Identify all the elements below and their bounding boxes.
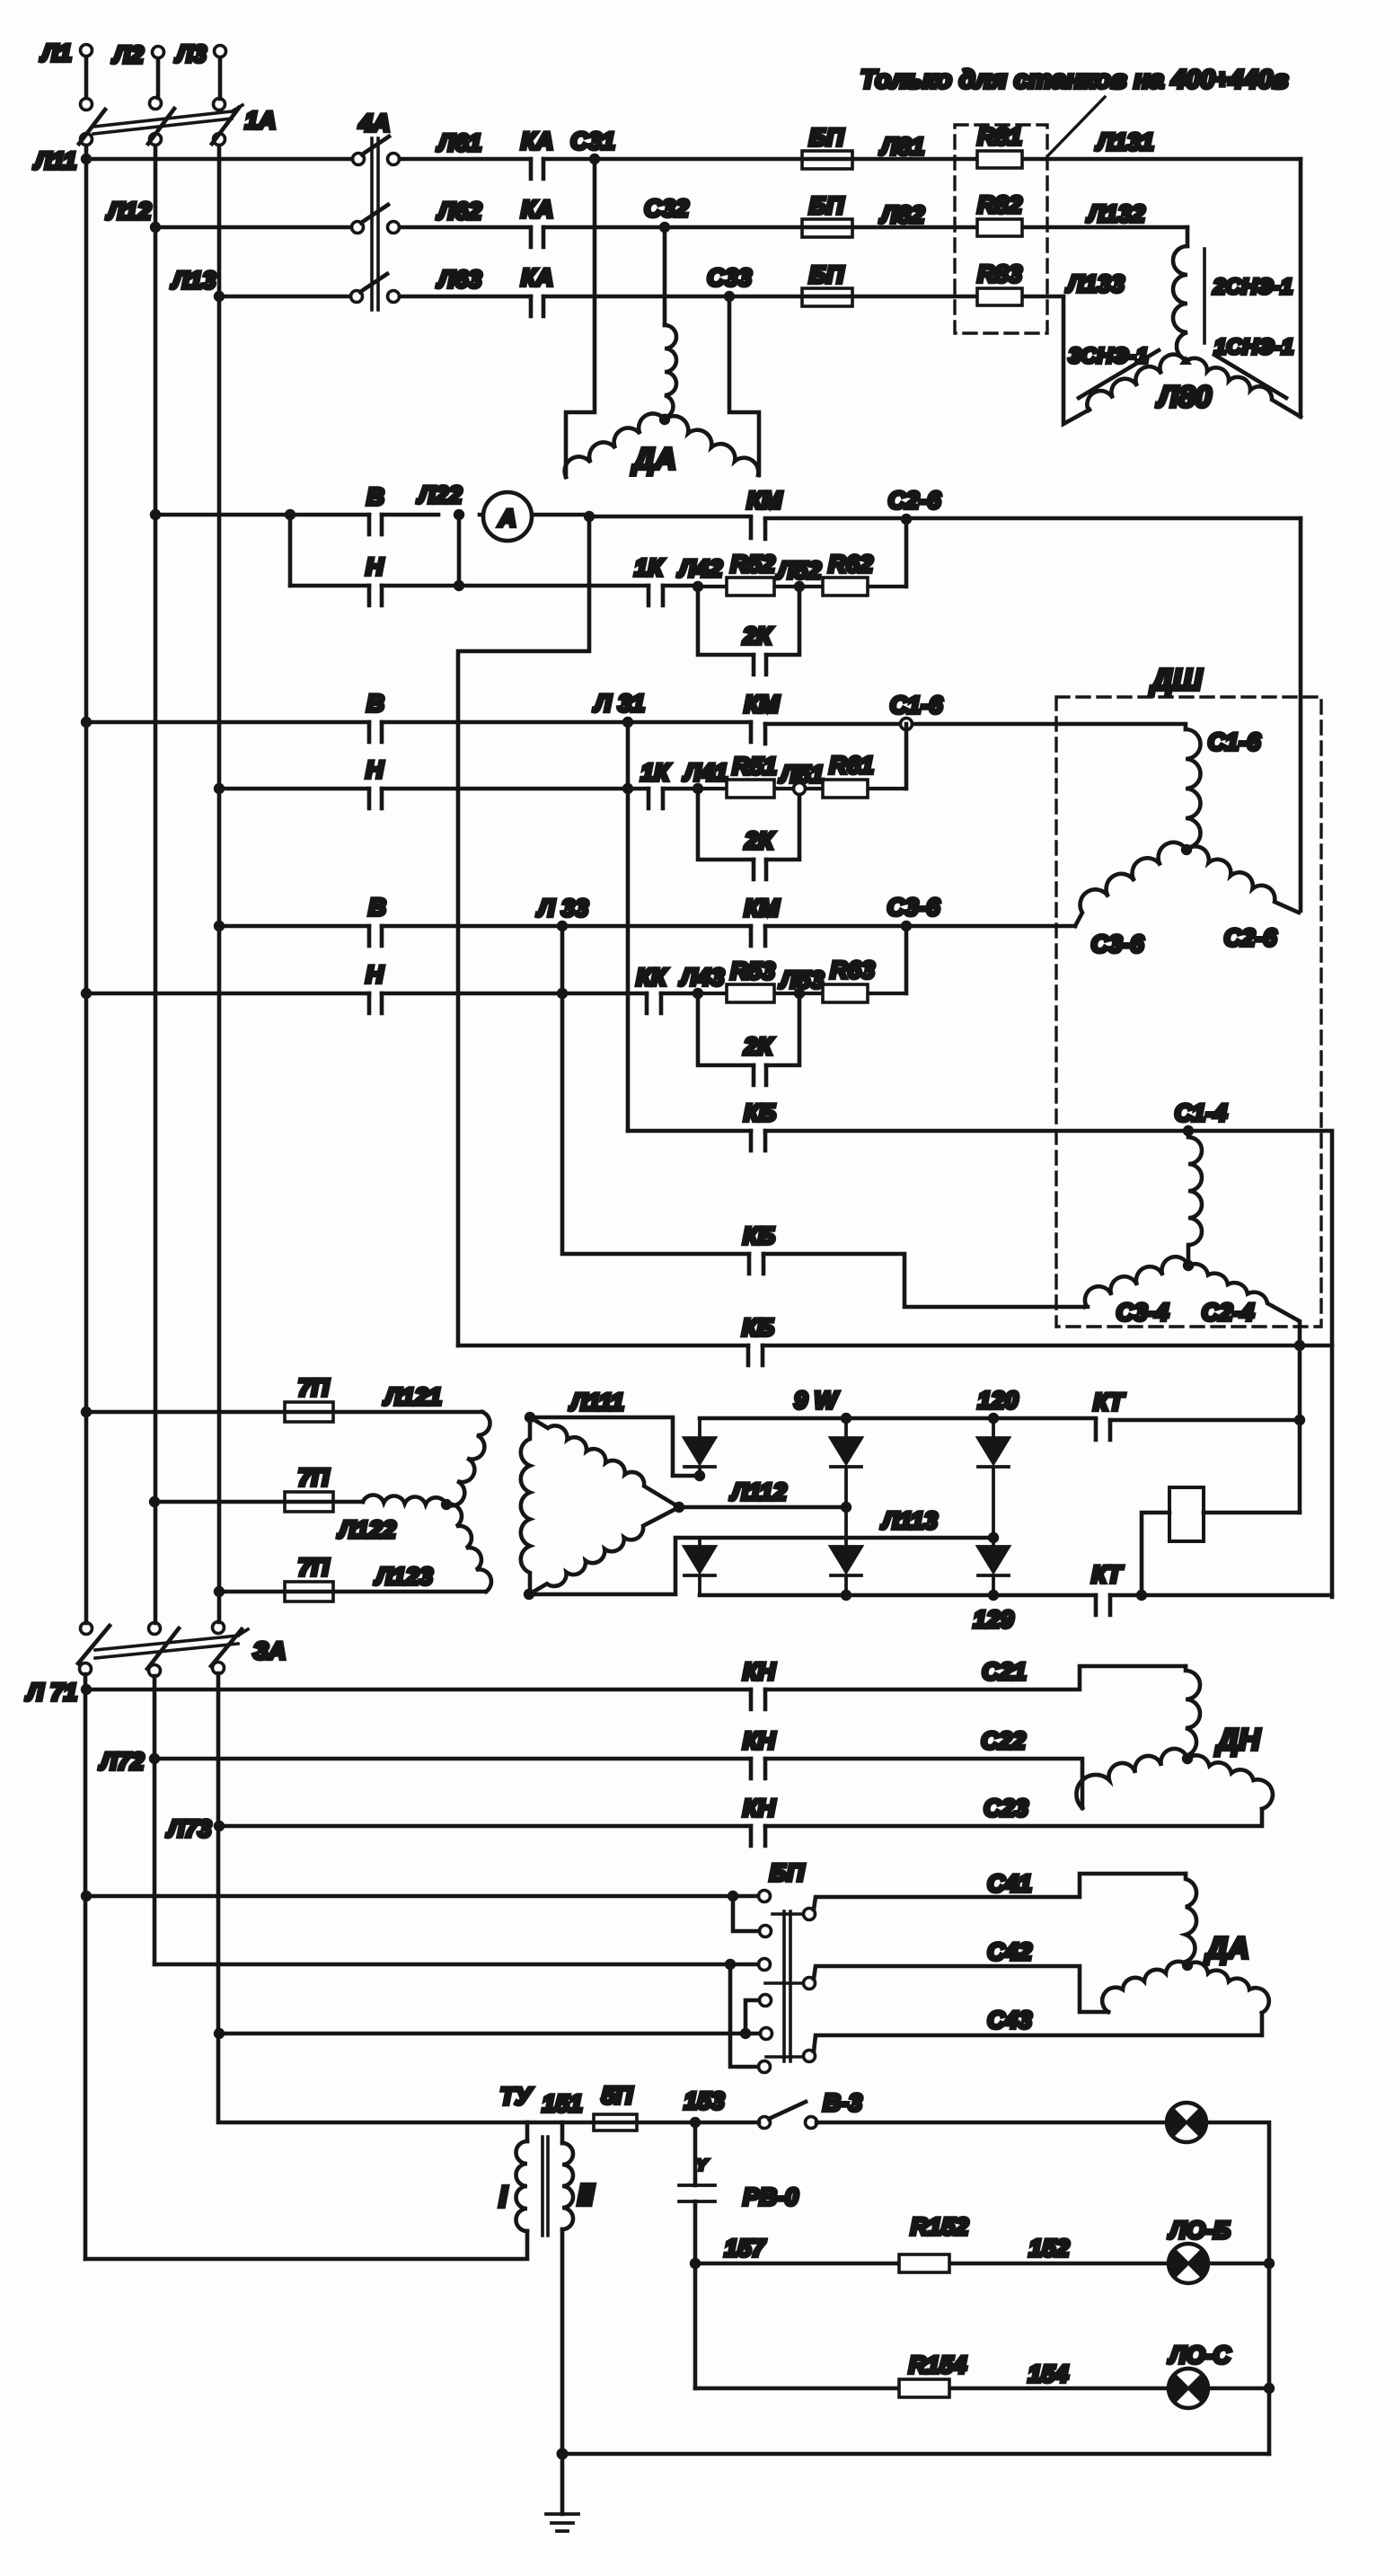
svg-text:ЛО-С: ЛО-С [1168, 2342, 1231, 2369]
node Н row2 left [214, 783, 225, 794]
relay КТ coil [1169, 1487, 1204, 1541]
node КТ row right [1294, 1415, 1305, 1425]
svg-text:БП: БП [770, 1859, 805, 1886]
winding 2СНЭ-1 [1173, 246, 1187, 360]
contact КМ row3 [751, 926, 765, 946]
wire branch to H-row1 [288, 515, 293, 586]
wire primary return [85, 2231, 527, 2259]
winding ДА2 right [1187, 1963, 1269, 2013]
switch 3A pole1 contacts [81, 1623, 93, 1635]
svg-text:Л122: Л122 [337, 1516, 396, 1543]
winding С2-6 [1187, 846, 1299, 913]
wire ammeter node jog down-left [458, 516, 589, 1345]
svg-text:1К: 1К [640, 759, 671, 786]
svg-text:КБ: КБ [743, 1222, 775, 1249]
svg-text:Н: Н [366, 756, 384, 783]
motor ДА left winding [565, 413, 665, 477]
svg-text:КН: КН [743, 1727, 776, 1754]
transformer Л111 apex node [674, 1502, 684, 1513]
svg-text:1СНЭ-1: 1СНЭ-1 [1214, 335, 1293, 359]
svg-text:Л1: Л1 [40, 40, 72, 66]
node С3-6 [901, 921, 912, 931]
transformer Л111 bottom vertex [524, 1589, 534, 1600]
contact КА row3 [531, 296, 543, 316]
node relay feed [1136, 1590, 1147, 1601]
node 157 [690, 2258, 701, 2269]
node Л73 [214, 1821, 225, 1831]
svg-text:КА: КА [521, 196, 553, 223]
svg-text:С1-4: С1-4 [1175, 1099, 1228, 1126]
switch 1A pole 3 contacts [214, 99, 225, 110]
svg-text:152: 152 [1028, 2235, 1069, 2262]
svg-text:1А: 1А [245, 107, 277, 134]
wire БП row2 loop [730, 1964, 758, 2067]
switch 3A blade pole3 [211, 1629, 242, 1666]
svg-text:С3-4: С3-4 [1116, 1299, 1169, 1326]
wire 7П row2 [154, 1500, 363, 1504]
svg-text:С3-6: С3-6 [1091, 931, 1145, 957]
winding ДА2 left [1102, 1962, 1187, 2012]
wire Л83 row [729, 295, 1063, 299]
node ЛО-С right [1264, 2383, 1275, 2394]
node Л33 [557, 921, 568, 931]
svg-text:КТ: КТ [1091, 1561, 1124, 1588]
node С2-6 [901, 514, 912, 525]
terminal БП c1 [759, 1891, 771, 1902]
svg-text:Л72: Л72 [99, 1748, 145, 1775]
svg-text:ДН: ДН [1214, 1723, 1261, 1756]
svg-text:В: В [366, 690, 384, 717]
contact КТ lower [1096, 1595, 1110, 1615]
contact КН row2 [751, 1759, 765, 1778]
svg-text:КБ: КБ [742, 1314, 774, 1341]
fuse 5П [594, 2114, 637, 2130]
2СНЭ-1 side line [1203, 249, 1206, 343]
fuse БП row1 [802, 151, 852, 169]
wire Н row3 [86, 992, 698, 996]
terminal БП right2 [804, 1978, 816, 1989]
wire С42 row [814, 1966, 1108, 2012]
node Л112 [841, 1502, 851, 1513]
resistor R82 [977, 219, 1022, 236]
svg-text:Л132: Л132 [1086, 200, 1145, 227]
node Л52 [794, 581, 805, 592]
svg-text:129: 129 [973, 1606, 1013, 1633]
node diode1 bottom [694, 1470, 705, 1481]
motor ДА star point [659, 414, 670, 425]
svg-text:R81: R81 [977, 123, 1022, 150]
svg-text:В: В [368, 894, 386, 921]
svg-text:Л121: Л121 [383, 1383, 442, 1410]
contact КН row3 [751, 1826, 765, 1846]
svg-text:КМ: КМ [744, 895, 780, 922]
winding Л111 left side [521, 1417, 530, 1594]
svg-text:4А: 4А [358, 110, 391, 137]
node 9W top [841, 1413, 851, 1424]
wire Л81 row [595, 157, 1301, 162]
winding С41 [1186, 1874, 1196, 1962]
wire Л73 column [218, 1673, 527, 2122]
wire 2К bypass row2 [698, 789, 799, 860]
wire Н row2 [219, 787, 698, 791]
wire riser row3 [904, 926, 909, 993]
winding С2-4 [1188, 1264, 1300, 1345]
svg-text:С1-6: С1-6 [890, 692, 944, 719]
svg-text:2СНЭ-1: 2СНЭ-1 [1213, 275, 1293, 299]
wire КТ column [1298, 1345, 1302, 1513]
wire ground stem [560, 2454, 565, 2514]
wire Л22 drop [457, 515, 462, 586]
svg-text:С2-6: С2-6 [1224, 924, 1278, 951]
wire secondary down [560, 2229, 565, 2454]
wire БП row1 [86, 1894, 758, 1899]
svg-text:ЗА: ЗА [253, 1637, 287, 1664]
lamp ЛО-С [1169, 2369, 1208, 2408]
svg-text:120: 120 [977, 1387, 1018, 1414]
winding Л111 bottom side [529, 1507, 679, 1594]
svg-text:ЛО-Б: ЛО-Б [1168, 2217, 1231, 2244]
svg-text:Л3: Л3 [174, 40, 207, 67]
contact КТ upper [1096, 1420, 1110, 1440]
contact Н row1 [369, 586, 382, 605]
wire Л2 drop [156, 58, 161, 98]
node Л12 [150, 222, 161, 233]
node Л11 [81, 154, 92, 164]
svg-text:КА: КА [521, 128, 553, 154]
resistor R83 [977, 288, 1022, 305]
wire РВ-0 branch upper [693, 2128, 698, 2185]
svg-text:5П: 5П [602, 2082, 633, 2109]
node Л31 [622, 717, 633, 728]
svg-text:Н: Н [366, 961, 384, 988]
wire Л31 vertical [626, 722, 631, 1131]
ground [546, 2514, 578, 2531]
rectifier bottom bus [700, 1593, 1332, 1598]
svg-text:7П: 7П [298, 1464, 330, 1491]
node Л51 (open) [794, 783, 806, 795]
node С1-4 [1183, 1125, 1194, 1136]
svg-text:R52: R52 [730, 551, 775, 578]
contact КМ row1 [751, 518, 765, 539]
svg-text:Л133: Л133 [1065, 270, 1125, 297]
winding Л122 [363, 1495, 446, 1504]
svg-text:Л2: Л2 [111, 41, 144, 68]
svg-text:157: 157 [724, 2235, 766, 2262]
contact КА row2 [531, 227, 543, 247]
wire КН row1 (С21) [86, 1666, 1186, 1689]
svg-text:9 W: 9 W [794, 1387, 840, 1414]
node Л33-Н3 [557, 988, 568, 999]
wire lamp row [816, 2122, 1269, 2454]
wire H-row1 [290, 584, 697, 588]
switch 3A pole2 contacts [149, 1623, 161, 1635]
resistor R152 [899, 2254, 949, 2272]
switch 4A pole3 [351, 291, 363, 303]
resistor R61 [823, 780, 868, 798]
svg-text:R154: R154 [909, 2351, 967, 2378]
svg-text:С22: С22 [981, 1727, 1026, 1754]
svg-text:КМ: КМ [746, 487, 782, 514]
wire РВ-0 branch lower [693, 2201, 698, 2388]
diode D3 [978, 1418, 1009, 1538]
svg-text:С42: С42 [987, 1938, 1032, 1965]
node star ДШ-6 [1181, 844, 1192, 855]
diode D2 [831, 1418, 861, 1505]
winding С21 [1186, 1666, 1200, 1756]
diode D5 [831, 1507, 861, 1595]
svg-text:R82: R82 [977, 191, 1022, 218]
node С33 [724, 291, 735, 302]
fuse 7П row3 [285, 1582, 333, 1601]
switch 1A blade pole3 [212, 108, 239, 144]
wire bottom bus [562, 2452, 1269, 2457]
node ДН star [1182, 1753, 1193, 1764]
svg-text:2К: 2К [742, 622, 773, 649]
transformer ТУ primary winding I [516, 2141, 528, 2231]
winding ДН right [1187, 1755, 1273, 1809]
svg-text:БП: БП [809, 124, 844, 151]
terminal БП c3 [759, 1959, 771, 1971]
wire R152 row [695, 2262, 1168, 2266]
wire bus Л11 vertical [84, 146, 89, 1623]
svg-text:Л62: Л62 [437, 198, 482, 225]
svg-text:Л112: Л112 [729, 1478, 787, 1505]
svg-text:151: 151 [542, 2090, 582, 2117]
svg-text:I: I [498, 2180, 507, 2213]
svg-text:Л53: Л53 [779, 966, 825, 993]
svg-text:В-3: В-3 [823, 2089, 862, 2116]
svg-text:С21: С21 [982, 1658, 1027, 1685]
wire Л111 phase jog [530, 1417, 693, 1476]
winding Л121 [446, 1412, 490, 1505]
svg-text:Л113: Л113 [880, 1507, 938, 1534]
wire Л13 row to 4A [219, 295, 350, 299]
svg-text:Л52: Л52 [776, 557, 822, 584]
svg-text:КН: КН [743, 1795, 776, 1822]
svg-text:154: 154 [1028, 2360, 1068, 2387]
lamp В-3 [1167, 2103, 1206, 2142]
svg-text:Л63: Л63 [437, 266, 482, 293]
wire Л11 row to 4A [86, 157, 352, 162]
wire Л131 vertical to 1СНЭ-1 [1299, 159, 1303, 417]
node Л53 [794, 988, 805, 999]
wire С33 to ДА right arm [729, 296, 759, 475]
svg-text:КБ: КБ [744, 1099, 776, 1126]
switch 3A tie bar [95, 1629, 248, 1658]
motor ДА top winding [665, 325, 676, 418]
contact В row2 [369, 722, 382, 742]
wire С31 to ДА left arm [566, 159, 595, 477]
node Л43 [693, 988, 703, 999]
node ЛО-Б right [1264, 2258, 1275, 2269]
svg-text:Л41: Л41 [683, 759, 728, 786]
winding Л111 top side [530, 1417, 679, 1507]
node КБ row3 right [1294, 1340, 1305, 1351]
resistor R81 [977, 151, 1022, 168]
terminal БП c4 [760, 1995, 772, 2007]
svg-text:С23: С23 [984, 1795, 1028, 1822]
node БП row3 left [214, 2028, 225, 2039]
svg-text:С3-6: С3-6 [887, 894, 941, 921]
wire Л62 row [400, 225, 658, 230]
node 7П row1 [81, 1407, 92, 1417]
stroke 3СНЭ-1 [1079, 350, 1159, 398]
svg-text:R63: R63 [830, 957, 875, 984]
svg-text:Л73: Л73 [166, 1815, 212, 1842]
contact В row1 [369, 515, 382, 534]
node B-row1 branch [285, 509, 296, 520]
svg-text:КМ: КМ [744, 691, 780, 718]
wire Л3 drop [218, 57, 223, 99]
svg-text:Л80: Л80 [1156, 380, 1212, 413]
svg-text:R53: R53 [730, 957, 775, 984]
contact КК [647, 993, 661, 1013]
node 153 [690, 2117, 701, 2128]
wire КБ row3 [458, 1344, 1332, 1348]
svg-text:РВ-0: РВ-0 [743, 2183, 798, 2210]
winding С3-4 [1084, 1257, 1188, 1307]
wire relay left lead [1142, 1513, 1169, 1595]
wire B-row1 [155, 513, 589, 517]
wire В row3 [219, 924, 1075, 929]
contact Н row2 [369, 789, 382, 808]
node ДА2 star [1182, 1960, 1193, 1971]
winding С1-6 [1186, 729, 1201, 848]
winding С1-4 [1188, 1137, 1202, 1262]
transformer Л111 top vertex [525, 1412, 535, 1423]
svg-text:R152: R152 [911, 2213, 969, 2240]
wire В row2 [86, 722, 906, 724]
switch 1A blade pole2 [148, 109, 174, 144]
svg-text:БП: БП [809, 261, 844, 288]
resistor R63 [823, 984, 868, 1002]
winding ДН left [1076, 1749, 1187, 1808]
svg-text:Л51: Л51 [779, 761, 825, 788]
wire БП row3 [219, 2032, 760, 2036]
svg-text:Л12: Л12 [106, 198, 152, 225]
node H-row1/Л22 [454, 580, 464, 591]
wire Л1 drop [84, 57, 89, 98]
resistor R52 [698, 585, 906, 588]
wire 7П row1 [86, 1410, 482, 1415]
svg-text:А: А [498, 505, 516, 532]
wire Л61 row [400, 157, 589, 162]
node БП row2 branch [725, 1959, 736, 1970]
node С31 [589, 154, 600, 164]
wire КН row2 (С22) [154, 1759, 1082, 1808]
wire БП row2 [154, 1963, 758, 1967]
rectifier top bus [700, 1418, 1300, 1420]
wire Л72 column [153, 1676, 157, 1964]
svg-text:Л81: Л81 [879, 133, 925, 160]
switch 4A pole1 [353, 154, 365, 165]
svg-text:Л82: Л82 [879, 201, 925, 228]
terminal БП c5 [761, 2028, 772, 2040]
svg-text:ДШ: ДШ [1149, 663, 1203, 696]
wire 2К bypass row1 [698, 587, 799, 655]
switch БП bar [784, 1911, 790, 2061]
winding Л80 right (1СНЭ-1) [1186, 358, 1301, 417]
motor ДА right winding [665, 416, 758, 475]
fuse 7П row2 [285, 1492, 333, 1512]
wire КН row3 (С23) [219, 1809, 1262, 1826]
svg-text:БП: БП [809, 192, 844, 219]
node Л41 dot [693, 783, 703, 794]
wire С2-6 vertical to winding [1299, 518, 1303, 911]
wire С41 row [814, 1874, 1186, 1910]
ammeter A [483, 492, 532, 541]
svg-text:7П: 7П [298, 1554, 330, 1581]
terminal БП right3 [804, 2051, 816, 2062]
wire feed to 153 [527, 2121, 759, 2125]
svg-text:Л42: Л42 [677, 555, 723, 582]
node star Л12x [441, 1499, 452, 1510]
terminal Л1 [81, 45, 93, 57]
node 120 top [988, 1413, 999, 1424]
svg-text:С41: С41 [987, 1870, 1032, 1897]
contact 1К row1 [648, 586, 663, 605]
wire С1-6 row to winding [913, 724, 1186, 729]
svg-text:Л 71: Л 71 [25, 1679, 77, 1706]
diode D1 [684, 1418, 715, 1476]
switch 3A pole3 contacts [213, 1622, 225, 1634]
svg-text:II: II [578, 2178, 595, 2211]
svg-text:Л13: Л13 [171, 267, 216, 294]
svg-text:С32: С32 [644, 195, 689, 222]
wire Л133 down [1063, 296, 1090, 424]
lamp ЛО-Б [1169, 2244, 1208, 2283]
callout line [1049, 97, 1105, 154]
svg-text:2К: 2К [744, 827, 775, 854]
svg-text:КК: КК [636, 964, 668, 991]
node star ДШ-4 [1183, 1260, 1194, 1271]
node Л113 [988, 1532, 999, 1543]
svg-text:КН: КН [743, 1658, 776, 1685]
node ground junction [557, 2448, 569, 2460]
svg-text:7П: 7П [298, 1374, 330, 1401]
contact КМ row2 [751, 722, 765, 744]
svg-text:R51: R51 [732, 753, 777, 780]
contact 2К row1 [754, 655, 766, 675]
svg-text:С31: С31 [570, 128, 615, 154]
wire bus Л12 vertical [154, 146, 158, 1623]
wire КБ row1 [628, 1131, 1332, 1597]
node Л72 [149, 1753, 160, 1764]
svg-text:Y: Y [696, 2157, 708, 2174]
svg-text:Л123: Л123 [374, 1563, 433, 1590]
terminal Л2 [153, 47, 164, 58]
contact КБ row1 [751, 1131, 765, 1151]
svg-text:Л11: Л11 [33, 147, 77, 174]
wire 7П row3 [219, 1590, 486, 1594]
transformer ТУ secondary winding II [562, 2143, 573, 2229]
svg-text:ДА: ДА [631, 442, 676, 475]
wire С32 down [663, 227, 667, 325]
svg-text:R83: R83 [977, 260, 1022, 287]
wire riser row2 [904, 724, 909, 789]
node after ammeter [584, 511, 595, 522]
resistor R62 [823, 578, 868, 595]
switch 1A tie bar [93, 105, 243, 134]
resistor R53 row [698, 992, 906, 995]
stroke 1СНЭ-1 [1214, 355, 1286, 398]
node Л71 [81, 1684, 92, 1695]
svg-text:R62: R62 [828, 551, 873, 578]
switch БП tick3 [766, 2055, 803, 2059]
node 7П row3 [214, 1586, 225, 1597]
contact КБ row2 [749, 1254, 763, 1274]
svg-text:Л111: Л111 [569, 1389, 624, 1416]
